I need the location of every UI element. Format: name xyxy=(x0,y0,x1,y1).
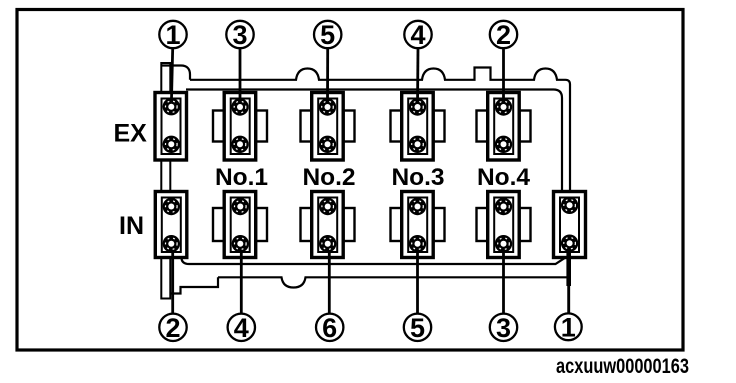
bolt IN No.3 top xyxy=(409,198,426,215)
cap EX No.3 tabs xyxy=(391,111,445,142)
bearing cap IN No.3 (seq 5) xyxy=(402,192,434,258)
bolt EX No.4 bottom xyxy=(495,136,512,153)
bolt IN No.2 top xyxy=(319,198,336,215)
bolt EX No.4 top xyxy=(495,98,512,115)
cap IN No.2 tabs xyxy=(301,208,355,241)
bolt IN No.4 top xyxy=(495,198,512,215)
callout circle bottom 3 xyxy=(490,313,517,343)
svg-text:2: 2 xyxy=(165,313,180,343)
bearing cap EX No.4 (seq 2) xyxy=(488,93,520,161)
svg-text:1: 1 xyxy=(561,313,576,343)
svg-text:1: 1 xyxy=(165,20,180,50)
leader line top 2 xyxy=(502,48,505,107)
bolt IN No.2 bottom xyxy=(319,235,336,252)
bolt EX No.3 top xyxy=(409,98,426,115)
bolt EX No.2 top xyxy=(319,98,336,115)
callout circle top 2 xyxy=(490,20,517,50)
callout circle top 5 xyxy=(314,20,341,50)
callout circle top 1 xyxy=(159,20,186,50)
bearing cap IN left (seq 2) xyxy=(155,192,187,258)
callout circle bottom 2 xyxy=(159,313,186,343)
head top step (left) xyxy=(161,66,190,80)
cap EX No.1 tabs xyxy=(213,111,267,142)
leader line top 1 xyxy=(171,48,172,107)
leader line top 5 xyxy=(326,48,329,107)
bolt EX No.1 bottom xyxy=(231,136,248,153)
bolt EX1 top xyxy=(163,98,180,115)
leader line bottom 3 xyxy=(502,244,505,314)
leader line top 4 xyxy=(416,48,419,107)
cap IN No.4 tabs xyxy=(477,208,531,241)
leader line bottom 2 xyxy=(171,244,174,314)
svg-text:6: 6 xyxy=(322,313,337,343)
bearing cap EX No.2 (seq 5) xyxy=(312,93,344,161)
bolt IN1 top xyxy=(163,198,180,215)
bolt IN No.1 bottom xyxy=(232,235,249,252)
bearing cap IN No.4 (seq 3) xyxy=(488,192,520,258)
leader line bottom 5 xyxy=(416,244,419,314)
svg-text:5: 5 xyxy=(410,313,425,343)
cap IN No.1 tabs xyxy=(213,208,267,241)
bolt EX1 bottom xyxy=(163,136,180,153)
svg-text:No.3: No.3 xyxy=(391,164,444,191)
svg-text:4: 4 xyxy=(234,313,249,343)
cap EX No.4 tabs xyxy=(477,111,531,142)
bolt IN right top xyxy=(561,197,578,214)
bolt EX No.2 bottom xyxy=(319,136,336,153)
svg-text:No.1: No.1 xyxy=(215,164,268,191)
callout circle top 3 xyxy=(226,20,253,50)
svg-text:No.4: No.4 xyxy=(477,164,530,191)
svg-text:5: 5 xyxy=(320,20,335,50)
bolt IN right bottom xyxy=(561,235,578,252)
leader line bottom 4 xyxy=(240,244,243,314)
svg-text:3: 3 xyxy=(496,313,511,343)
leader line bottom 6 xyxy=(328,244,331,314)
head left flange strip xyxy=(161,63,170,299)
callout circle bottom 4 xyxy=(228,313,255,343)
svg-text:IN: IN xyxy=(119,212,144,240)
cap IN No.3 tabs xyxy=(391,208,445,241)
bearing cap EX left (seq 1) xyxy=(155,93,187,161)
bolt IN No.3 bottom xyxy=(409,235,426,252)
svg-text:2: 2 xyxy=(496,20,511,50)
bolt EX No.1 top xyxy=(231,98,248,115)
bearing cap EX No.1 (seq 3) xyxy=(224,93,256,161)
callout circle bottom 5 xyxy=(404,313,431,343)
head inner bottom edge xyxy=(182,258,566,265)
head inner top edge xyxy=(186,90,562,193)
cap EX No.2 tabs xyxy=(301,111,355,142)
callout circle bottom 1 xyxy=(555,313,582,343)
bolt IN No.4 bottom xyxy=(495,235,512,252)
bearing cap EX No.3 (seq 4) xyxy=(402,93,434,161)
svg-text:EX: EX xyxy=(114,120,148,148)
leader line bottom 1 (thick) xyxy=(566,244,571,286)
svg-text:No.2: No.2 xyxy=(302,164,355,191)
head outer top edge with humps xyxy=(190,68,570,193)
bolt EX No.3 bottom xyxy=(409,136,426,153)
bolt IN1 bottom xyxy=(163,235,180,252)
svg-text:4: 4 xyxy=(410,20,425,50)
head bottom-left staircase xyxy=(170,277,218,293)
bearing cap IN No.2 (seq 6) xyxy=(312,192,344,258)
bearing cap IN right (seq 1) xyxy=(554,192,586,258)
svg-text:3: 3 xyxy=(232,20,247,50)
head outer bottom edge with notch xyxy=(218,277,568,287)
svg-text:acxuuw00000163: acxuuw00000163 xyxy=(556,355,689,378)
callout circle top 4 xyxy=(404,20,431,50)
callout circle bottom 6 xyxy=(316,313,343,343)
leader line top 3 xyxy=(239,48,242,107)
bearing cap IN No.1 (seq 4) xyxy=(224,192,256,258)
bolt IN No.1 top xyxy=(232,198,249,215)
